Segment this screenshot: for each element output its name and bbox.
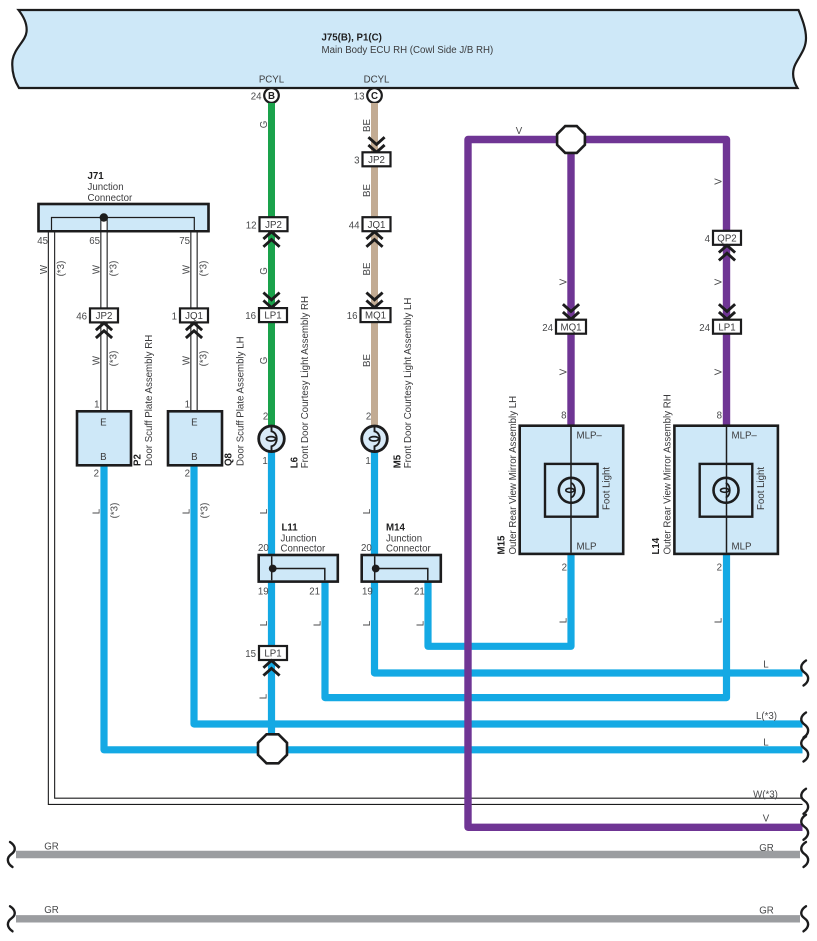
svg-text:Connector: Connector xyxy=(386,544,431,555)
svg-text:GR: GR xyxy=(44,842,59,853)
wire break squiggle right GR upper xyxy=(801,842,808,867)
svg-text:JQ1: JQ1 xyxy=(368,220,386,231)
svg-text:L: L xyxy=(362,508,373,514)
svg-text:GR: GR xyxy=(759,843,774,854)
wire L from M14 pin 19 to right edge xyxy=(362,582,803,674)
svg-text:Foot Light: Foot Light xyxy=(602,467,613,510)
svg-text:L: L xyxy=(259,620,270,626)
svg-text:(*3): (*3) xyxy=(199,261,210,277)
svg-text:3: 3 xyxy=(354,155,359,166)
junction connector L11 xyxy=(258,523,338,598)
svg-text:B: B xyxy=(268,91,275,102)
svg-text:GR: GR xyxy=(759,906,774,917)
svg-text:MLP–: MLP– xyxy=(732,431,758,442)
svg-text:W: W xyxy=(39,264,50,274)
svg-text:16: 16 xyxy=(347,311,358,322)
svg-text:W: W xyxy=(92,264,103,274)
svg-text:2: 2 xyxy=(263,412,268,423)
svg-text:JQ1: JQ1 xyxy=(185,311,203,322)
svg-text:Foot Light: Foot Light xyxy=(756,467,767,510)
svg-text:16: 16 xyxy=(245,311,256,322)
svg-text:2: 2 xyxy=(562,563,567,574)
svg-text:19: 19 xyxy=(362,587,373,598)
svg-text:Main Body ECU RH (Cowl Side J/: Main Body ECU RH (Cowl Side J/B RH) xyxy=(322,45,494,56)
svg-text:E: E xyxy=(191,418,198,429)
svg-text:JP2: JP2 xyxy=(368,155,385,166)
wire G from ECU pin B to lamp L6 xyxy=(259,103,272,439)
svg-text:B: B xyxy=(191,452,197,463)
splice octagon on V wire xyxy=(557,126,585,153)
svg-text:15: 15 xyxy=(245,649,256,660)
svg-text:20: 20 xyxy=(361,543,372,554)
svg-text:(*3): (*3) xyxy=(109,351,120,367)
svg-text:JP2: JP2 xyxy=(96,311,113,322)
svg-text:BE: BE xyxy=(362,184,373,197)
svg-text:G: G xyxy=(259,357,270,365)
svg-text:M15: M15 xyxy=(497,535,508,554)
svg-text:13: 13 xyxy=(354,92,365,103)
svg-text:LP1: LP1 xyxy=(264,649,281,660)
wire V main run: left drop to bottom edge, top run, right drop to L14 xyxy=(468,126,803,827)
chevron below 15 LP1 xyxy=(263,661,279,676)
svg-text:L: L xyxy=(763,660,769,671)
svg-text:M14: M14 xyxy=(386,523,405,534)
svg-text:Front Door Courtesy Light Asse: Front Door Courtesy Light Assembly LH xyxy=(403,298,414,469)
svg-text:Outer Rear View Mirror Assembl: Outer Rear View Mirror Assembly RH xyxy=(663,394,674,554)
svg-text:(*3): (*3) xyxy=(56,261,67,277)
svg-text:L: L xyxy=(416,620,427,626)
svg-text:MQ1: MQ1 xyxy=(365,311,386,322)
svg-text:MQ1: MQ1 xyxy=(561,322,582,333)
svg-text:M5: M5 xyxy=(393,454,404,468)
svg-text:LP1: LP1 xyxy=(718,322,735,333)
door scuff plate Q8 xyxy=(168,336,247,479)
svg-text:G: G xyxy=(259,121,270,129)
svg-text:L: L xyxy=(714,617,725,623)
wire L from M14 pin 21 to M15 pin MLP xyxy=(416,554,572,646)
svg-text:DCYL: DCYL xyxy=(364,75,390,86)
svg-text:20: 20 xyxy=(258,543,269,554)
wire GR lower xyxy=(16,905,800,919)
svg-text:L: L xyxy=(313,620,324,626)
svg-text:L6: L6 xyxy=(290,456,301,468)
lamp L6 front door courtesy light RH xyxy=(259,296,311,468)
connector 44 JQ1 on BE wire xyxy=(349,217,391,231)
svg-text:W: W xyxy=(182,264,193,274)
svg-text:MLP–: MLP– xyxy=(577,431,603,442)
svg-text:1: 1 xyxy=(365,456,370,467)
svg-text:1: 1 xyxy=(172,312,177,323)
chevron above 16 LP1 xyxy=(263,293,279,308)
wire W(*3) from J71 pin 45 to right edge (white wire) xyxy=(39,233,803,802)
chevron above 16 MQ1 xyxy=(366,293,382,308)
connector 12 JP2 on G wire xyxy=(246,217,288,231)
wire W from J71 pin 75 to Q8 (white wire) xyxy=(182,233,210,412)
svg-text:P2: P2 xyxy=(133,454,144,466)
svg-text:L: L xyxy=(362,620,373,626)
svg-text:Door Scuff Plate Assembly LH: Door Scuff Plate Assembly LH xyxy=(236,336,247,466)
connector 4 QP2 on V wire xyxy=(705,231,741,245)
svg-text:Door Scuff Plate Assembly RH: Door Scuff Plate Assembly RH xyxy=(144,335,155,466)
outer rear view mirror L14 xyxy=(651,394,778,573)
svg-text:1: 1 xyxy=(185,400,190,411)
svg-text:V: V xyxy=(763,814,770,825)
chevron above 24 LP1 xyxy=(719,304,735,319)
svg-text:2: 2 xyxy=(717,563,722,574)
J71 border restroke xyxy=(39,204,209,231)
wire L from L11 pin 19 through LP1 to splice octagon xyxy=(259,582,272,749)
svg-text:L(*3): L(*3) xyxy=(756,711,777,722)
svg-text:L: L xyxy=(182,508,193,514)
svg-text:24: 24 xyxy=(699,323,710,334)
svg-text:24: 24 xyxy=(542,323,553,334)
svg-text:BE: BE xyxy=(362,354,373,367)
svg-text:V: V xyxy=(559,278,570,285)
connector 46 JP2 on W wire xyxy=(76,308,118,322)
svg-text:J71: J71 xyxy=(88,171,105,182)
wire L(*3) from P2 pin B to right edge xyxy=(92,465,803,750)
pin 24 B of ECU xyxy=(251,88,279,103)
chevron below 1 JQ1 xyxy=(186,323,202,338)
connector 15 LP1 on L wire xyxy=(245,646,287,660)
connector 24 LP1 on V wire xyxy=(699,320,741,334)
svg-text:(*3): (*3) xyxy=(110,503,121,519)
wire L from L11 pin 21 to L14 pin MLP xyxy=(313,554,727,698)
chevron below 12 JP2 xyxy=(263,232,279,247)
svg-text:V: V xyxy=(714,278,725,285)
wire break squiggle left GR upper xyxy=(8,842,15,867)
svg-text:21: 21 xyxy=(414,587,425,598)
svg-text:BE: BE xyxy=(362,262,373,275)
svg-text:V: V xyxy=(559,368,570,375)
chevron above 24 MQ1 xyxy=(563,304,579,319)
J71 internal bus bar xyxy=(52,218,195,231)
svg-text:L11: L11 xyxy=(282,523,299,534)
svg-text:MLP: MLP xyxy=(732,542,752,553)
wire GR upper xyxy=(16,842,800,855)
svg-text:Connector: Connector xyxy=(281,544,326,555)
svg-text:4: 4 xyxy=(705,234,711,245)
wire break squiggle left GR lower xyxy=(8,906,15,931)
svg-text:G: G xyxy=(259,267,270,275)
svg-text:W: W xyxy=(182,355,193,365)
wire W from J71 pin 65 to P2 (white wire) xyxy=(92,218,120,411)
svg-text:2: 2 xyxy=(366,412,371,423)
svg-text:24: 24 xyxy=(251,92,262,103)
svg-text:Junction: Junction xyxy=(88,182,124,193)
wire break squiggle right V xyxy=(801,815,808,840)
svg-text:8: 8 xyxy=(717,411,722,422)
svg-text:W(*3): W(*3) xyxy=(753,790,778,801)
svg-text:L: L xyxy=(259,693,270,699)
svg-text:BE: BE xyxy=(362,119,373,132)
svg-text:L14: L14 xyxy=(651,537,662,554)
svg-text:PCYL: PCYL xyxy=(259,75,285,86)
wire break squiggle right W(*3) xyxy=(801,789,808,814)
svg-text:Front Door Courtesy Light Asse: Front Door Courtesy Light Assembly RH xyxy=(300,296,311,468)
svg-text:B: B xyxy=(100,452,106,463)
J71 bus junction dot xyxy=(100,213,108,221)
wire L from lamp L6 to L11 pin 20 xyxy=(259,439,272,555)
svg-text:Q8: Q8 xyxy=(224,452,235,466)
svg-text:L: L xyxy=(763,737,769,748)
svg-text:21: 21 xyxy=(309,587,320,598)
wire break squiggle right L xyxy=(801,661,808,686)
connector 16 LP1 on G wire xyxy=(245,308,287,322)
wire break squiggle right GR lower xyxy=(801,906,808,931)
lamp M5 front door courtesy light LH xyxy=(362,298,414,469)
door scuff plate P2 xyxy=(77,335,155,480)
svg-text:Connector: Connector xyxy=(88,193,133,204)
svg-text:19: 19 xyxy=(258,587,269,598)
svg-text:Outer Rear View Mirror Assembl: Outer Rear View Mirror Assembly LH xyxy=(508,396,519,555)
svg-text:GR: GR xyxy=(44,905,59,916)
svg-text:V: V xyxy=(714,178,725,185)
svg-text:MLP: MLP xyxy=(577,542,597,553)
svg-text:L: L xyxy=(259,508,270,514)
labels on horizontal L wires at right edge xyxy=(753,660,778,825)
svg-text:QP2: QP2 xyxy=(717,233,736,244)
svg-text:L: L xyxy=(559,617,570,623)
svg-text:46: 46 xyxy=(76,312,87,323)
svg-text:1: 1 xyxy=(94,400,99,411)
svg-text:45: 45 xyxy=(37,236,48,247)
svg-text:(*3): (*3) xyxy=(109,261,120,277)
svg-text:V: V xyxy=(516,126,523,137)
connector 24 MQ1 on V wire xyxy=(542,320,586,334)
chevron below 44 JQ1 xyxy=(366,232,382,247)
J71 pin numbers xyxy=(37,236,190,247)
wire break squiggle right L(*3) xyxy=(801,713,808,738)
splice octagon on L wire xyxy=(258,734,287,763)
wire BE from ECU pin C to lamp M5 xyxy=(362,103,375,439)
chevron below 46 JP2 xyxy=(96,323,112,338)
wire L from lamp M5 to M14 pin 20 xyxy=(362,439,375,555)
svg-text:65: 65 xyxy=(89,236,100,247)
wire L(*3) from Q8 pin B to right edge xyxy=(182,465,803,724)
connector 3 JP2 on BE wire xyxy=(354,152,390,166)
svg-text:75: 75 xyxy=(179,236,190,247)
chevron above 3 JP2 xyxy=(368,137,384,152)
svg-text:(*3): (*3) xyxy=(200,503,211,519)
svg-text:E: E xyxy=(100,418,107,429)
svg-text:W: W xyxy=(92,355,103,365)
svg-text:2: 2 xyxy=(185,469,190,480)
svg-text:L: L xyxy=(92,508,103,514)
wire V from splice octagon to M15 xyxy=(559,140,572,426)
svg-text:44: 44 xyxy=(349,220,360,231)
svg-text:JP2: JP2 xyxy=(265,220,282,231)
svg-text:C: C xyxy=(371,91,378,102)
svg-text:V: V xyxy=(714,368,725,375)
connector 16 MQ1 on BE wire xyxy=(347,308,391,322)
outer rear view mirror M15 xyxy=(497,396,624,574)
junction connector J71 xyxy=(39,171,209,231)
chevron below 4 QP2 xyxy=(719,245,735,260)
svg-text:12: 12 xyxy=(246,220,257,231)
svg-text:LP1: LP1 xyxy=(264,311,281,322)
ECU J75 band xyxy=(12,10,806,88)
pin 13 C of ECU xyxy=(354,88,382,103)
svg-text:8: 8 xyxy=(561,411,566,422)
svg-text:J75(B), P1(C): J75(B), P1(C) xyxy=(322,33,382,44)
svg-text:1: 1 xyxy=(262,456,267,467)
junction connector M14 xyxy=(361,523,441,598)
wire break squiggle right L lower xyxy=(801,737,808,762)
connector 1 JQ1 on W wire xyxy=(172,308,208,322)
svg-text:(*3): (*3) xyxy=(199,351,210,367)
svg-text:2: 2 xyxy=(94,469,99,480)
